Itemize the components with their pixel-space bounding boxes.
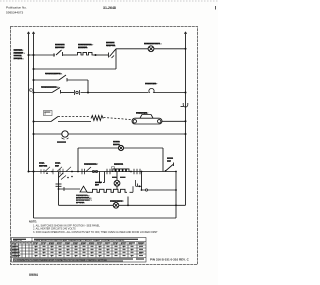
wire to oven lamp <box>81 92 149 94</box>
oven lamp cartridge (stadium with end caps and hump) <box>132 115 162 125</box>
wire to N bus <box>154 48 186 50</box>
svg-text:P/N 316 B 031 0-310 REV. C: P/N 316 B 031 0-310 REV. C <box>150 258 190 262</box>
oven lamp switch blade <box>59 75 67 82</box>
wire to N bus <box>162 120 186 122</box>
oven signal light drop with crossed circle <box>114 172 120 190</box>
left bus lower continuation <box>33 172 35 219</box>
svg-text:TEMP: TEMP <box>138 243 144 245</box>
wire <box>63 54 76 56</box>
wire <box>67 79 88 81</box>
svg-text:SIG: SIG <box>129 243 133 245</box>
wire to N bus <box>154 92 186 94</box>
svg-text:3. FOR CLEAN OPERATION - ALL C: 3. FOR CLEAN OPERATION - ALL CONTACTS SE… <box>33 231 158 234</box>
node L1 top row <box>28 54 30 56</box>
svg-text:Publication No.: Publication No. <box>6 6 27 10</box>
wire <box>34 133 62 135</box>
svg-text:CL-2: CL-2 <box>97 243 101 245</box>
junction node right riser <box>175 171 177 173</box>
circled P terminal label between buses <box>30 89 33 93</box>
vertical grid lines <box>14 242 16 258</box>
label ink smudge bars (scan-like darkening) <box>14 42 174 203</box>
infinite switch <box>109 49 117 58</box>
junction node riser / lamp row <box>127 204 129 206</box>
table data row texts <box>12 247 142 258</box>
wire with terminal node <box>94 54 109 56</box>
receptacle on N bus <box>181 103 188 107</box>
wire to N bus <box>68 133 185 135</box>
riser from infinite switch to pilot wire <box>115 49 117 69</box>
bake element (square humps) <box>112 169 130 172</box>
svg-text:1-BR: 1-BR <box>65 243 70 245</box>
dashed linkage to cartridge lamp <box>104 118 132 120</box>
broil switch pivot terminal <box>165 170 167 172</box>
broil switch blade <box>166 163 174 171</box>
wire <box>87 191 91 193</box>
svg-text:N-SIG: N-SIG <box>89 243 95 245</box>
surface signal light (crossed circle) <box>148 46 154 52</box>
junction node N bus / pilot wire <box>185 48 187 50</box>
surface unit switch <box>54 50 63 57</box>
selector lower deck marks <box>61 176 66 180</box>
pilot wire to signal light <box>116 48 148 50</box>
mechanical linkage (dashed) <box>58 116 90 118</box>
junction node N bus / cartridge row <box>185 120 187 122</box>
bus N (right vertical) <box>184 32 187 205</box>
lamp row wire <box>59 204 186 206</box>
sub-loop top wire <box>78 147 163 149</box>
infinite switch label <box>106 43 116 48</box>
node L2 / thermostat row <box>33 171 35 173</box>
thermal delta contact <box>80 186 87 192</box>
junction node N bus / oven lamp row <box>185 92 187 94</box>
wire <box>34 92 53 94</box>
node L2 / oven lamp switch row <box>33 79 35 81</box>
svg-text:5995344073: 5995344073 <box>6 11 23 15</box>
junction node right riser / lower wire <box>175 189 177 191</box>
corner down to lamp wire <box>87 80 89 93</box>
table title row text <box>13 239 124 242</box>
wire <box>29 54 56 56</box>
broil element (square humps) <box>91 189 127 192</box>
header publication number text <box>6 6 27 15</box>
connector bead <box>145 189 147 191</box>
svg-text:L1-B: L1-B <box>33 243 38 245</box>
selector switch contact cluster <box>41 167 71 174</box>
drop continues to lower wire <box>141 184 143 191</box>
terminal tick <box>63 187 65 191</box>
surface unit element (square humps) <box>76 52 94 55</box>
svg-text:09/94: 09/94 <box>29 273 39 277</box>
clean signal light label <box>113 141 121 147</box>
wire <box>130 191 134 193</box>
timer label box <box>44 111 53 116</box>
right margin tick <box>215 6 217 10</box>
wire y=190 to right riser <box>142 189 177 191</box>
contacts after bake element <box>134 169 140 174</box>
thermostat row wire <box>29 171 177 173</box>
svg-text:31-2648: 31-2648 <box>103 6 116 10</box>
clock motor <box>62 131 69 139</box>
surface unit switch label <box>55 44 66 50</box>
drop from bake row x=141.5 with relay contacts <box>141 172 143 184</box>
bus L1 (left vertical) <box>27 32 30 172</box>
svg-text:NOTE:: NOTE: <box>29 220 37 224</box>
wire <box>34 79 60 81</box>
connector pair on lamp wire <box>75 90 80 95</box>
svg-text:L2-B: L2-B <box>113 243 118 245</box>
node L2 / oven door switch row <box>33 92 35 94</box>
broil switch label <box>167 158 174 163</box>
selector switch labels <box>39 163 61 168</box>
wire under linkage <box>58 121 91 123</box>
clean signal light (crossed circle) <box>118 145 123 150</box>
oven door switch blade <box>52 88 60 93</box>
thermostat detail text block <box>76 194 93 204</box>
sub-loop right riser <box>162 148 164 172</box>
selector contact terminals <box>46 172 48 174</box>
oven lamp (loop lamp symbol) <box>148 88 154 92</box>
riser x=128 <box>127 197 129 206</box>
sub-loop left riser <box>77 148 79 172</box>
node L2 / clock row <box>33 133 35 135</box>
node relay drop <box>141 171 143 173</box>
table column header texts <box>12 242 144 245</box>
broil element feed wire <box>59 188 81 190</box>
horizontal grid lines <box>12 241 147 243</box>
small contact block marks <box>112 167 115 172</box>
oven signal light (crossed circle) <box>113 203 119 209</box>
left margin label: surface units typical note <box>14 49 26 60</box>
resistor (sawtooth) <box>91 116 103 121</box>
surface element label <box>78 44 94 50</box>
bus L2 (second left vertical) <box>32 32 35 172</box>
junction node N bus / clock row <box>185 133 187 135</box>
node L2 / timer row <box>33 121 35 123</box>
junction node broil feed <box>58 188 60 190</box>
left riser from selector row down to signal row <box>56 172 64 205</box>
thermostat contacts <box>82 167 110 174</box>
junction node lamp switch rows <box>87 92 89 94</box>
junction node right riser / lamp row <box>175 204 177 206</box>
junction node lower wire <box>141 189 143 191</box>
node bake element terminal <box>130 171 132 173</box>
broil element label <box>95 182 102 186</box>
bottom return wire <box>34 217 177 219</box>
wire <box>61 92 74 94</box>
lower deck terminals <box>67 177 69 179</box>
svg-text:SWITCH: SWITCH <box>13 240 22 242</box>
node relay contact <box>139 185 141 187</box>
node L2 / row y69 <box>33 68 35 70</box>
diagram border frame <box>11 27 198 265</box>
wire <box>34 121 52 123</box>
page top edge dotted line <box>0 0 218 2</box>
element terminal node <box>95 54 97 56</box>
riser from broil circuit down right side <box>175 172 177 219</box>
node L1 / thermostat row <box>28 171 30 173</box>
junction node sub-loop left riser <box>77 171 79 173</box>
timer switch blade <box>51 117 58 122</box>
table ink smudge bars <box>12 239 144 244</box>
wire <box>34 68 117 70</box>
contact drops from thermostat row <box>100 172 105 183</box>
